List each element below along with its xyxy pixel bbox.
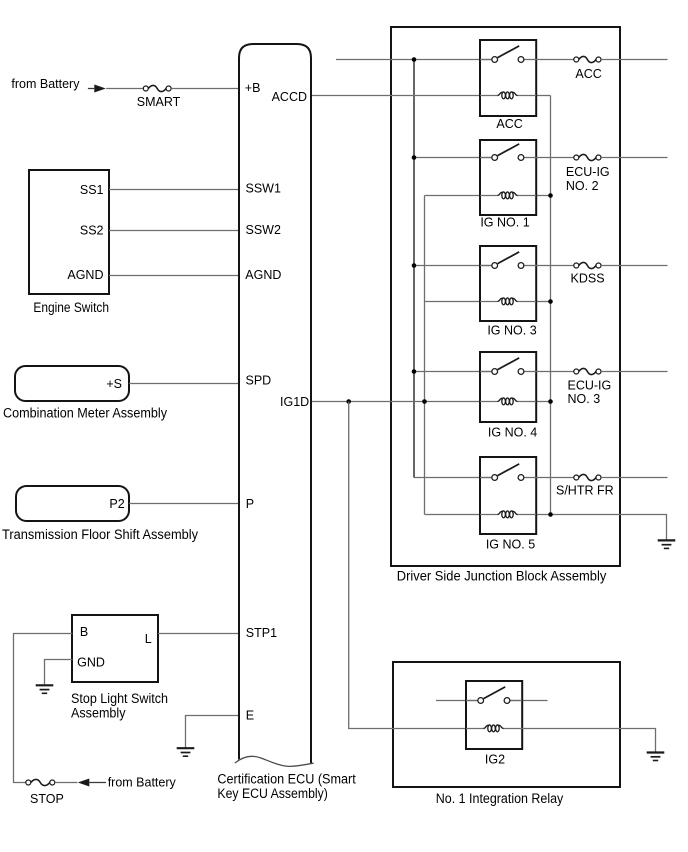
wire GND to ground: [45, 660, 73, 685]
wire IG NO.5 coil to ground: [536, 515, 667, 541]
wire +S to SPD: [129, 383, 238, 385]
wire IG NO.4 coil to ground rail: [536, 401, 551, 403]
junction: IG NO.3 coil / ground rail: [548, 299, 553, 304]
ground (No. 1 Integration Relay): [647, 753, 665, 761]
wire AGND to AGND: [109, 275, 238, 277]
wire fuse KDSS output: [601, 265, 668, 267]
svg-text:SS2: SS2: [80, 224, 104, 238]
wire coil feed rail (vertical): [424, 196, 426, 515]
wire L to STP1: [158, 633, 238, 635]
svg-text:ACC: ACC: [575, 67, 601, 81]
wire arrow to SMART fuse: [106, 88, 143, 90]
svg-text:ECU-IG: ECU-IG: [568, 379, 612, 393]
relay IG NO. 4: [480, 352, 536, 422]
svg-text:SMART: SMART: [137, 95, 181, 109]
svg-text:Certification ECU (Smart: Certification ECU (Smart: [217, 771, 356, 786]
svg-text:ACC: ACC: [496, 117, 522, 131]
svg-text:KDSS: KDSS: [571, 271, 605, 285]
fuse KDSS: [574, 262, 601, 268]
wire IG2 coil to ground: [522, 729, 655, 753]
svg-text:SPD: SPD: [246, 373, 272, 387]
svg-text:L: L: [145, 632, 152, 646]
wire P2 to P: [129, 503, 238, 505]
svg-text:ECU-IG: ECU-IG: [566, 165, 610, 179]
svg-text:SSW1: SSW1: [246, 182, 281, 196]
wire SS2 to SSW2: [109, 230, 238, 232]
wire IG1D to IG NO.4 relay coil: [312, 401, 480, 403]
Stop Light Switch Assembly body: [72, 615, 158, 682]
wire fuse ACC output: [601, 59, 668, 61]
wire fuse ECU-IG NO. 2 output: [601, 157, 668, 159]
wire rail to IG NO.4 relay contact: [414, 371, 492, 373]
svg-text:+B: +B: [245, 81, 261, 95]
svg-text:+S: +S: [106, 377, 122, 391]
wire relay contact to fuse S/HTR FR: [536, 477, 574, 479]
wire coil rail to IG NO.1 coil: [425, 195, 481, 197]
fuse SMART: [143, 85, 171, 91]
junction: contact rail / IG NO.4 contact: [412, 369, 417, 374]
wire contact feed rail (vertical): [413, 60, 415, 478]
relay IG NO. 1: [480, 140, 536, 215]
fuse ECU-IG NO. 2: [574, 154, 601, 160]
relay ACC: [480, 40, 536, 116]
wire IG2 contact stub (right): [510, 700, 548, 702]
wire SMART fuse to ECU +B: [171, 88, 238, 90]
wire ACCD to ACC relay coil: [312, 95, 480, 97]
ground (junction block coils): [658, 540, 676, 548]
wire battery feed to ACC relay contact: [336, 59, 492, 61]
wire relay contact to fuse ECU-IG NO. 2: [536, 157, 574, 159]
svg-text:IG NO. 1: IG NO. 1: [480, 216, 529, 230]
arrow from Battery (points left): [78, 779, 90, 787]
svg-text:NO. 3: NO. 3: [568, 392, 601, 406]
svg-text:IG NO. 4: IG NO. 4: [488, 426, 537, 440]
relay IG NO. 3: [480, 246, 536, 321]
svg-text:IG NO. 3: IG NO. 3: [487, 324, 536, 338]
relay IG2: [466, 681, 522, 749]
Certification ECU torn-edge bottom: [235, 756, 314, 766]
junction: IG NO.1 coil / ground rail: [548, 193, 553, 198]
wire STOP fuse to arrow: [55, 782, 78, 784]
svg-text:P2: P2: [109, 497, 124, 511]
svg-text:STOP: STOP: [30, 792, 64, 806]
wire rail to IG NO.5 relay contact: [414, 477, 492, 479]
ground (Stop Light Switch GND): [36, 685, 54, 693]
Combination Meter Assembly body: [15, 366, 129, 401]
fuse STOP: [26, 779, 55, 785]
junction: IG1D / coil rail: [422, 399, 427, 404]
junction: contact rail / IG NO.1 contact: [412, 155, 417, 160]
svg-text:Key ECU Assembly): Key ECU Assembly): [217, 786, 328, 801]
fuse ACC: [574, 56, 601, 62]
wire IG1D branch to IG2 coil: [349, 402, 466, 729]
svg-text:from Battery: from Battery: [108, 776, 177, 790]
svg-text:IG1D: IG1D: [280, 395, 309, 409]
relay IG NO. 5: [480, 457, 536, 534]
svg-text:ACCD: ACCD: [272, 90, 307, 104]
junction: feed line / contact rail: [412, 57, 417, 62]
svg-text:S/HTR FR: S/HTR FR: [556, 483, 614, 497]
fuse ECU-IG NO. 3: [574, 368, 601, 374]
svg-text:Transmission Floor Shift Assem: Transmission Floor Shift Assembly: [2, 527, 198, 542]
svg-text:IG2: IG2: [485, 752, 505, 766]
svg-text:Assembly: Assembly: [71, 706, 126, 721]
svg-text:E: E: [246, 708, 254, 722]
wire IG2 contact stub (left): [436, 700, 478, 702]
wire rail to IG NO.1 relay contact: [414, 157, 492, 159]
No. 1 Integration Relay body: [393, 662, 620, 787]
wire ACC coil to ground rail: [536, 95, 551, 97]
svg-text:Driver Side Junction Block Ass: Driver Side Junction Block Assembly: [397, 569, 607, 584]
svg-text:GND: GND: [77, 655, 105, 669]
wire IG NO.3 coil to ground rail: [536, 301, 551, 303]
svg-text:AGND: AGND: [245, 268, 281, 282]
wire coil ground rail (vertical): [550, 96, 552, 515]
wire fuse ECU-IG NO. 3 output: [601, 371, 668, 373]
Transmission Floor Shift Assembly body: [16, 486, 129, 521]
wire relay contact to fuse KDSS: [536, 265, 574, 267]
svg-text:SSW2: SSW2: [246, 223, 281, 237]
Certification ECU (Smart Key ECU Assembly) U1 body: [239, 44, 311, 764]
arrow into SMART fuse (points right): [94, 85, 106, 93]
svg-text:Combination Meter Assembly: Combination Meter Assembly: [3, 405, 167, 420]
wire IG NO.1 coil to ground rail: [536, 195, 551, 197]
svg-text:STP1: STP1: [246, 626, 277, 640]
wire E to ground: [186, 716, 239, 749]
wire SS1 to SSW1: [109, 189, 238, 191]
svg-text:Stop Light Switch: Stop Light Switch: [71, 691, 168, 706]
svg-text:No. 1 Integration Relay: No. 1 Integration Relay: [436, 791, 564, 806]
wire fuse S/HTR FR output: [601, 477, 668, 479]
wire rail to IG NO.3 relay contact: [414, 265, 492, 267]
svg-text:B: B: [80, 625, 88, 639]
junction: IG1D branch node: [346, 399, 351, 404]
svg-text:AGND: AGND: [67, 268, 103, 282]
svg-text:NO. 2: NO. 2: [566, 179, 599, 193]
svg-text:IG NO. 5: IG NO. 5: [486, 538, 535, 552]
wire coil rail to IG NO.5 coil: [425, 514, 481, 516]
junction: IG NO.5 coil / ground rail: [548, 512, 553, 517]
Driver Side Junction Block Assembly body: [391, 27, 620, 566]
wire arrow to from-Battery label: [89, 782, 106, 784]
fuse S/HTR FR: [574, 474, 601, 480]
svg-text:Engine Switch: Engine Switch: [33, 300, 109, 315]
svg-text:from Battery: from Battery: [11, 77, 80, 91]
Engine Switch SW1 body: [29, 170, 109, 294]
wire coil rail to IG NO.3 coil: [425, 301, 481, 303]
wire from-Battery to arrow (top): [88, 88, 94, 90]
svg-text:P: P: [246, 497, 254, 511]
wire B to STOP fuse (left drop): [14, 634, 73, 783]
junction: IG NO.4 coil / ground rail: [548, 399, 553, 404]
wire relay contact to fuse ACC: [536, 59, 574, 61]
ground (ECU E): [177, 748, 195, 756]
svg-text:SS1: SS1: [80, 183, 104, 197]
wire relay contact to fuse ECU-IG NO. 3: [536, 371, 574, 373]
junction: contact rail / IG NO.3 contact: [412, 263, 417, 268]
